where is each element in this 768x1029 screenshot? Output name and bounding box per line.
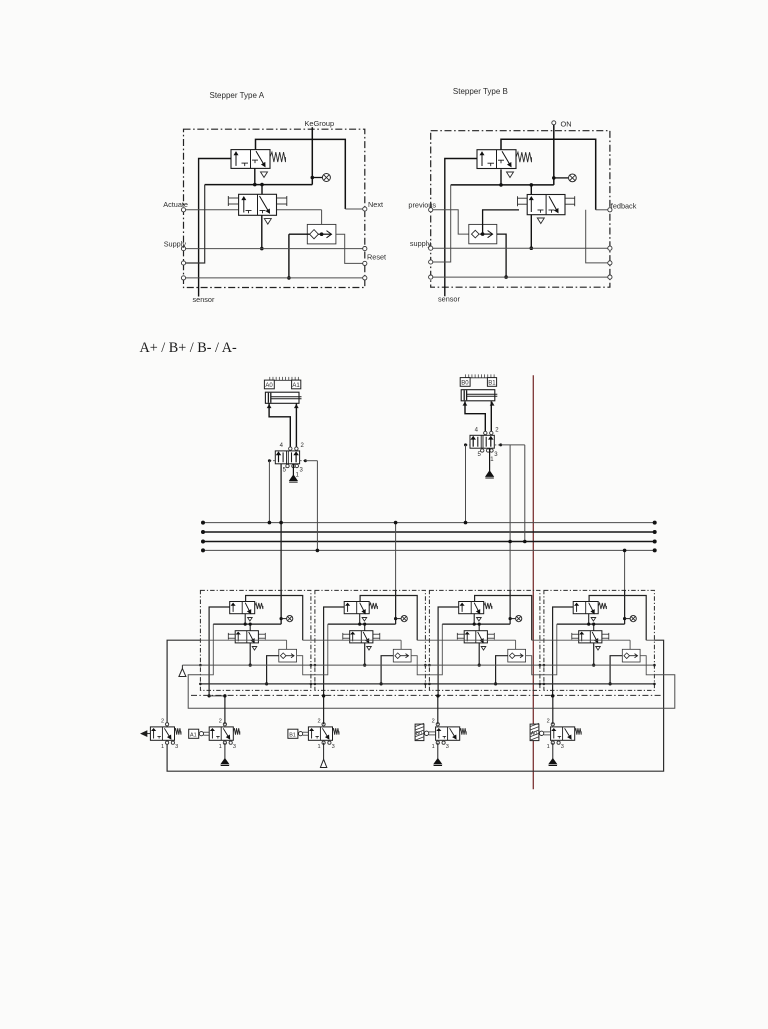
svg-text:A0: A0 bbox=[265, 383, 273, 389]
wire Actuate line A bbox=[184, 209, 322, 211]
wire supply source triangle bbox=[179, 665, 186, 676]
wire lamp stub B bbox=[554, 177, 569, 179]
wire check valve B top tap to valve V2B pilot bbox=[483, 210, 519, 234]
module 1 valve2 riser bbox=[249, 624, 251, 631]
limit valve B1 spring bbox=[333, 728, 340, 735]
label sequence A+ / B+ / B- / A- bbox=[140, 340, 237, 356]
valve V2B left box flow arrow bbox=[530, 197, 532, 212]
valve V1B return spring bbox=[516, 152, 532, 162]
module 2 junction lamp tap bbox=[394, 617, 397, 620]
port previous bbox=[429, 208, 433, 212]
module 4 wire valve1 out to Next bbox=[589, 596, 646, 641]
svg-text:Stepper Type B: Stepper Type B bbox=[453, 87, 508, 96]
module 3 check right to reset port bbox=[526, 656, 540, 675]
limit valve A0 right cell diagonal bbox=[565, 728, 572, 739]
module 4 valve1 diagonal bbox=[589, 603, 595, 614]
limit valve S1 T bbox=[157, 735, 161, 737]
valve V1B exhaust triangle bbox=[507, 172, 514, 178]
svg-text:previous: previous bbox=[408, 200, 436, 209]
module 1 wire Next stub bbox=[303, 639, 311, 641]
module 3 check valve body bbox=[508, 649, 526, 662]
module 2 junction sensor on chain bbox=[322, 694, 325, 697]
valve V2A left box T bbox=[246, 210, 252, 212]
module 4 check valve body bbox=[622, 649, 640, 662]
module 1 check valve diamond bbox=[280, 653, 286, 659]
wire bottom pass line A bbox=[184, 277, 365, 279]
svg-text:2: 2 bbox=[161, 718, 164, 724]
limit valve A1 port 2 bbox=[223, 723, 226, 726]
svg-text:KeGroup: KeGroup bbox=[305, 119, 335, 128]
limit valve A1 left cell arrow bbox=[211, 729, 213, 739]
wire port3 riser B bbox=[431, 185, 451, 262]
valve V2A left pilot symbol bbox=[228, 197, 238, 199]
module 3 lamp stub bbox=[510, 618, 515, 620]
valve 1VA ports 5 1 3 bbox=[286, 464, 289, 467]
module 4 valve1 arrow bbox=[576, 603, 578, 612]
module 2 valve 3/2 double pilot body bbox=[350, 631, 373, 643]
module 3 valve2 right pilot bbox=[487, 633, 494, 635]
valve V1B left box flow arrow bbox=[481, 152, 483, 166]
module 2 check valve body bbox=[393, 649, 411, 662]
valve 1VA 5/2 impulse valve body bbox=[275, 451, 299, 464]
limit valve A0 port 1 bbox=[551, 741, 554, 744]
limit valve B1 T bbox=[315, 735, 319, 737]
limit valve A0 port 2 bbox=[551, 723, 554, 726]
module 3 junction lamp tap bbox=[509, 617, 512, 620]
module 1 actuate drop to check bbox=[286, 640, 288, 656]
module 4 valve1 exhaust bbox=[591, 618, 596, 622]
module 2 valve2 diagonal bbox=[363, 632, 369, 643]
wire cylinder B right port to valve 1VB port 2 bbox=[490, 401, 492, 433]
valve V1A right box diagonal flow arrow bbox=[256, 151, 265, 166]
module 3 actuate line bbox=[429, 639, 515, 641]
valve V2A right box diagonal arrow bbox=[260, 196, 270, 213]
svg-text:B1: B1 bbox=[488, 381, 496, 387]
cylinder B position ruler bbox=[466, 377, 495, 379]
limit valve S1 port 1 bbox=[166, 741, 169, 744]
port A-left-4 bbox=[181, 276, 185, 280]
valve 1VA exhaust silencer bbox=[292, 464, 294, 475]
limit valve A1 body bbox=[209, 727, 233, 740]
svg-text:3: 3 bbox=[233, 744, 236, 750]
svg-text:B0: B0 bbox=[416, 731, 422, 737]
module 3 actuate drop to check bbox=[515, 640, 517, 656]
wire valve V1B bottom port drop bbox=[500, 169, 502, 185]
valve 1VA right cell arrows bbox=[295, 452, 297, 462]
valve V2B 3/2 double pilot body bbox=[527, 195, 565, 215]
svg-text:B0: B0 bbox=[461, 381, 469, 387]
limit valve A1 roller link bbox=[199, 732, 203, 736]
junction KeGroup/lamp tap bbox=[311, 176, 315, 180]
wire valve V1B output to feedback (up-over-down) bbox=[501, 139, 596, 210]
cylinder A barrel bbox=[265, 392, 299, 403]
svg-text:Actuate: Actuate bbox=[163, 200, 188, 209]
module 4 check right to reset port bbox=[640, 656, 654, 675]
sensor marker A0 bbox=[264, 380, 274, 389]
module 1 port3 riser bbox=[200, 624, 213, 675]
module 2 valve2 riser bbox=[364, 624, 366, 631]
module 4 wire sensor/pilot bbox=[553, 607, 574, 696]
wire Actuate drop to check valve A bbox=[321, 210, 323, 234]
module 3 valve2 exhaust bbox=[481, 647, 486, 651]
module 4 valve2 left pilot bbox=[572, 633, 579, 635]
limit valve B0 port 3 bbox=[442, 741, 445, 744]
flow control check valve Z1A body bbox=[307, 224, 336, 244]
valve V2B left box T bbox=[538, 209, 544, 211]
wire 1VB left pilot to bus1 bbox=[464, 445, 468, 524]
stepper block B dash-dot enclosure bbox=[431, 131, 610, 288]
limit valve A1 T bbox=[216, 735, 220, 737]
wire sensor line to valve V1B pilot bbox=[445, 159, 477, 297]
junction valve V2B on supply bbox=[530, 246, 534, 250]
module 1 border pass dots bbox=[199, 664, 202, 667]
wire reset wrap ring (inner rectangle) bbox=[188, 640, 675, 708]
limit valve B0 T bbox=[443, 735, 447, 737]
limit valve S1 right cell diagonal bbox=[164, 728, 171, 739]
module 3 indicator lamp bbox=[516, 616, 522, 622]
svg-text:sensor: sensor bbox=[438, 295, 460, 304]
port B-right-4 bbox=[608, 275, 612, 279]
valve 1VB port 2 bbox=[490, 431, 493, 434]
wire valve V1A output to Next (up-over-down) bbox=[256, 139, 346, 209]
wire sensor line to valve V1A pilot bbox=[199, 159, 231, 297]
cylinder B barrel bbox=[461, 390, 495, 401]
wire bottom pass line bbox=[200, 683, 654, 685]
wire supply pass line bbox=[182, 664, 654, 666]
module 3 lamp feed bbox=[509, 590, 511, 624]
wire v3 exhaust bbox=[437, 743, 439, 759]
limit valve A1 position marker box bbox=[189, 729, 199, 738]
wire supply line A bbox=[184, 248, 365, 250]
wire actuate wrap ring (outer rectangle) bbox=[167, 640, 663, 771]
module 1 valve1 drop bbox=[244, 614, 246, 624]
valve V1B 3/2 pilot valve body bbox=[477, 150, 516, 169]
limit valve B0 body bbox=[436, 727, 460, 740]
limit valve B1 port 3 bbox=[328, 741, 331, 744]
valve V2A exhaust triangle bbox=[264, 219, 271, 225]
cylinder B piston bbox=[463, 390, 465, 400]
indicator lamp H1B bbox=[569, 174, 577, 182]
module 2 lamp stub bbox=[396, 618, 401, 620]
wire 1VA right pilot to bus4 bbox=[316, 461, 320, 553]
module 2 check valve arrow bbox=[401, 655, 409, 657]
module 2 valve1 exhaust bbox=[362, 618, 367, 622]
module 2 border pass dots bbox=[314, 664, 317, 667]
wire 1VB pilot line to module3 junction bbox=[508, 445, 512, 624]
wire 1VB right pilot to bus3 bbox=[523, 445, 527, 543]
valve 1VB left pilot dashed bbox=[466, 444, 471, 446]
red step-position cursor line bbox=[532, 375, 534, 789]
sensor marker B0 bbox=[460, 378, 470, 387]
module 1 junction lamp tap bbox=[280, 617, 283, 620]
module 4 lamp stub bbox=[625, 618, 630, 620]
module 4 check valve diamond bbox=[624, 653, 630, 659]
module 3 valve 3/2 double pilot body bbox=[464, 631, 487, 643]
wire v3 port2 riser bbox=[323, 696, 325, 724]
limit valve B1 port 1 bbox=[322, 741, 325, 744]
junction valve V2B riser bbox=[530, 183, 534, 187]
module 1 valve2 diagonal bbox=[249, 632, 255, 643]
wire ON vertical into block B bbox=[553, 125, 555, 185]
module 3 check valve arrow bbox=[515, 655, 523, 657]
module 3 valve2 arrow bbox=[466, 632, 468, 641]
module 2 wire valve1 out to Next bbox=[360, 596, 417, 641]
check valve Z1B flow arrow bbox=[480, 233, 493, 235]
module 2 valve2 right pilot bbox=[373, 633, 380, 635]
wire supply line B bbox=[431, 247, 610, 249]
junction check valve A top tap bbox=[320, 232, 324, 236]
module 1 check valve body bbox=[279, 649, 297, 662]
wire v3 port2 riser bbox=[437, 696, 439, 724]
limit valve B1 left cell arrow bbox=[311, 729, 313, 739]
module 1 junction line bbox=[213, 623, 281, 625]
valve V2A 3/2 double pilot body bbox=[239, 194, 277, 215]
wire valve V2A top port riser bbox=[261, 185, 263, 195]
stepper block A dash-dot enclosure bbox=[184, 129, 365, 287]
module 4 valve2 riser bbox=[593, 624, 595, 631]
wire v2 exhaust bbox=[224, 743, 226, 759]
wire 1VB right pilot run bbox=[501, 444, 525, 446]
svg-text:fedback: fedback bbox=[611, 202, 637, 211]
limit valve B1 body bbox=[308, 727, 332, 740]
limit valve A0 left cell arrow bbox=[553, 729, 555, 739]
port supply-B bbox=[429, 246, 433, 250]
module 1 check valve arrow bbox=[286, 655, 294, 657]
valve V2B right pilot symbol bbox=[565, 197, 575, 199]
junction valve V2A riser bbox=[260, 183, 264, 187]
limit valve A1 port 1 bbox=[223, 741, 226, 744]
module 1 check left drop bbox=[267, 656, 279, 684]
module 1 valve2 bottom to supply bbox=[249, 643, 251, 665]
wire port3 riser A bbox=[184, 185, 205, 263]
module 2 valve2 bottom to supply bbox=[364, 643, 366, 665]
module 4 valve1 spring bbox=[598, 603, 606, 609]
wire check valve A left line bbox=[289, 233, 310, 235]
module 2 actuate line bbox=[315, 639, 401, 641]
wire bottom pass line B bbox=[431, 276, 610, 278]
wire feedback port stub bbox=[596, 209, 610, 211]
module 2 valve 3/2 spring body bbox=[344, 602, 369, 614]
module 3 valve 3/2 spring body bbox=[459, 602, 484, 614]
stepper module 3 enclosure bbox=[429, 590, 540, 690]
valve V2B exhaust triangle bbox=[537, 218, 544, 224]
stepper module 2 enclosure bbox=[315, 590, 426, 690]
svg-text:A1: A1 bbox=[292, 383, 300, 389]
limit valve S1 body bbox=[150, 727, 174, 740]
module 1 wire sensor/pilot bbox=[209, 607, 230, 696]
limit valve S1 port 3 bbox=[171, 741, 174, 744]
module 4 port3 riser bbox=[544, 624, 557, 675]
svg-text:3: 3 bbox=[175, 744, 178, 750]
limit valve B0 port 1 bbox=[436, 741, 439, 744]
limit valve A1 right cell diagonal bbox=[223, 728, 230, 739]
junction check valve B top tap bbox=[481, 232, 485, 236]
port Actuate bbox=[181, 208, 185, 212]
wire 1VA left pilot to bus1 bbox=[268, 461, 272, 525]
module 2 lamp feed bbox=[395, 590, 397, 624]
valve 1VB left cell arrows bbox=[472, 437, 474, 447]
valve 1VA port 2 bbox=[295, 447, 298, 450]
valve V1A exhaust triangle bbox=[261, 172, 268, 178]
wire v5 exhaust bbox=[552, 743, 554, 759]
wire sensor chain line bbox=[209, 694, 226, 697]
junction check A on bottom line bbox=[287, 276, 291, 280]
module 2 valve2 arrow bbox=[352, 632, 354, 641]
port Reset bbox=[363, 261, 367, 265]
wire valve V1A bottom port drop bbox=[254, 168, 256, 184]
stepper module 1 enclosure bbox=[200, 590, 311, 690]
limit valve A0 roller link bbox=[539, 731, 543, 735]
wire valve V2B bottom port to supply bbox=[530, 215, 532, 249]
port Next bbox=[363, 207, 367, 211]
module 2 valve1 spring bbox=[369, 603, 377, 609]
module 3 valve1 arrow bbox=[461, 603, 463, 612]
module 1 lamp feed bbox=[280, 590, 282, 624]
module 3 valve2 diagonal bbox=[478, 632, 484, 643]
check valve Z1B diamond bbox=[472, 230, 480, 238]
module 4 check left drop bbox=[610, 656, 622, 684]
port B-left-4 bbox=[429, 275, 433, 279]
module 1 valve1 spring bbox=[255, 603, 263, 609]
valve V1A return spring bbox=[270, 152, 286, 162]
svg-text:1: 1 bbox=[219, 744, 222, 750]
port A-right-4 bbox=[363, 276, 367, 280]
valve V1A right box blocked T bbox=[252, 159, 258, 161]
valve 1VA port 4 bbox=[289, 447, 292, 450]
module 1 valve2 exhaust bbox=[252, 647, 257, 651]
wire 1VA right pilot run bbox=[305, 460, 317, 462]
limit valve B1 port 2 bbox=[322, 723, 325, 726]
limit valve B0 port 2 bbox=[436, 723, 439, 726]
module 2 wire sensor/pilot bbox=[324, 607, 345, 696]
limit valve B0 roller link bbox=[424, 731, 428, 735]
module 3 valve2 riser bbox=[478, 624, 480, 631]
port B-right-supply bbox=[608, 246, 612, 250]
module 3 valve1 drop bbox=[473, 614, 475, 624]
module 4 valve 3/2 spring body bbox=[573, 602, 598, 614]
wire Next port stub bbox=[345, 208, 365, 210]
module 2 wire Next stub bbox=[417, 639, 425, 641]
valve V1B right box blocked T bbox=[498, 159, 504, 161]
limit valve S1 left cell arrow bbox=[153, 729, 155, 739]
module 2 valve2 left pilot bbox=[343, 633, 350, 635]
svg-text:Supply: Supply bbox=[164, 240, 187, 249]
svg-text:supply: supply bbox=[410, 239, 431, 248]
module 1 lamp stub bbox=[281, 618, 286, 620]
wire reset chain inter-module links bbox=[311, 674, 315, 676]
limit valve B0 left cell arrow bbox=[438, 729, 440, 739]
valve V1B left box blocked port T bbox=[488, 162, 495, 164]
module 1 valve1 arrow bbox=[232, 603, 234, 612]
module 4 valve 3/2 double pilot body bbox=[579, 631, 602, 643]
indicator lamp H1A bbox=[322, 174, 330, 182]
valve V1B right box diagonal flow arrow bbox=[502, 151, 511, 166]
module 4 check valve arrow bbox=[630, 655, 638, 657]
module 4 border pass dots bbox=[543, 664, 546, 667]
title Stepper Type B bbox=[453, 87, 508, 96]
module 3 junction sensor on chain bbox=[437, 694, 440, 697]
wire bus4 to module4 junction bbox=[623, 549, 627, 624]
module 1 valve1 diagonal bbox=[245, 603, 251, 614]
valve V2A right box T bbox=[260, 210, 266, 212]
module 3 check left drop bbox=[496, 656, 508, 684]
stepper module 4 enclosure bbox=[544, 590, 655, 690]
svg-text:1: 1 bbox=[317, 744, 320, 750]
svg-text:2: 2 bbox=[317, 718, 320, 724]
module 2 valve1 diagonal bbox=[360, 603, 366, 614]
valve 1VB exhaust silencer bbox=[489, 448, 491, 471]
limit valve B0 spring bbox=[460, 728, 467, 735]
module 4 junction sensor on chain bbox=[551, 694, 554, 697]
module 3 valve1 exhaust bbox=[477, 618, 482, 622]
svg-text:1: 1 bbox=[547, 744, 550, 750]
module 1 wire valve1 out to Next bbox=[246, 596, 303, 641]
module 2 actuate drop to check bbox=[400, 640, 402, 656]
junction valve V1B drop bbox=[499, 183, 503, 187]
limit valve A0 spring bbox=[575, 728, 582, 735]
valve 1VB ports 5 1 3 bbox=[481, 449, 484, 452]
module 3 junction line bbox=[442, 623, 510, 625]
cylinder A position ruler bbox=[270, 379, 299, 381]
module 1 indicator lamp bbox=[287, 616, 293, 622]
svg-text:A0: A0 bbox=[531, 731, 537, 737]
group dash-dot marker line bbox=[191, 694, 661, 696]
module 2 valve1 drop bbox=[359, 614, 361, 624]
limit valve A0 actuated position marker box bbox=[530, 724, 539, 741]
module 4 junction lamp tap bbox=[623, 617, 626, 620]
limit valve S1 spring bbox=[175, 728, 182, 735]
module 3 port3 riser bbox=[429, 624, 442, 675]
wire valve V2B top riser bbox=[530, 185, 532, 195]
module 4 lamp feed bbox=[624, 590, 626, 624]
module 1 valve 3/2 spring body bbox=[230, 602, 255, 614]
svg-text:A1: A1 bbox=[190, 733, 197, 739]
port feedback bbox=[608, 208, 612, 212]
module 3 valve2 bottom to supply bbox=[478, 643, 480, 665]
cylinder B port arrows bbox=[463, 402, 466, 405]
module 4 valve2 diagonal bbox=[592, 632, 598, 643]
limit valve A0 port 3 bbox=[557, 741, 560, 744]
wire v3 exhaust bbox=[323, 743, 325, 760]
svg-text:Stepper Type A: Stepper Type A bbox=[210, 91, 265, 100]
module 4 indicator lamp bbox=[630, 616, 636, 622]
module 2 check left drop bbox=[381, 656, 393, 684]
module 4 valve1 drop bbox=[588, 614, 590, 624]
limit valve A1 spring bbox=[233, 728, 240, 735]
flow control check valve Z1B body bbox=[469, 224, 497, 243]
module 4 valve2 arrow bbox=[581, 632, 583, 641]
wire cylinder B left port to valve 1VB port 4 bbox=[465, 401, 491, 433]
valve 1VA right pilot dashed bbox=[300, 460, 306, 462]
svg-text:3: 3 bbox=[561, 744, 564, 750]
svg-text:1: 1 bbox=[161, 744, 164, 750]
wire cylinder A left port to valve 1VA port 4 bbox=[269, 403, 296, 449]
wire check valve A right line to Reset bbox=[336, 234, 365, 263]
junction ON/lamp tap bbox=[552, 176, 556, 180]
wire valve V2A bottom port to supply bbox=[261, 215, 263, 248]
module 1 actuate line bbox=[200, 639, 286, 641]
module 3 wire sensor/pilot bbox=[438, 607, 459, 696]
svg-text:Reset: Reset bbox=[367, 253, 386, 262]
svg-text:1: 1 bbox=[432, 744, 435, 750]
svg-text:2: 2 bbox=[219, 718, 222, 724]
module 4 actuate line bbox=[544, 639, 630, 641]
wire feedback chain drop B bbox=[586, 210, 610, 263]
svg-text:Next: Next bbox=[368, 200, 383, 209]
cylinder A piston rod bbox=[271, 396, 302, 398]
module 1 valve 3/2 double pilot body bbox=[235, 631, 258, 643]
module 2 check valve diamond bbox=[395, 653, 401, 659]
